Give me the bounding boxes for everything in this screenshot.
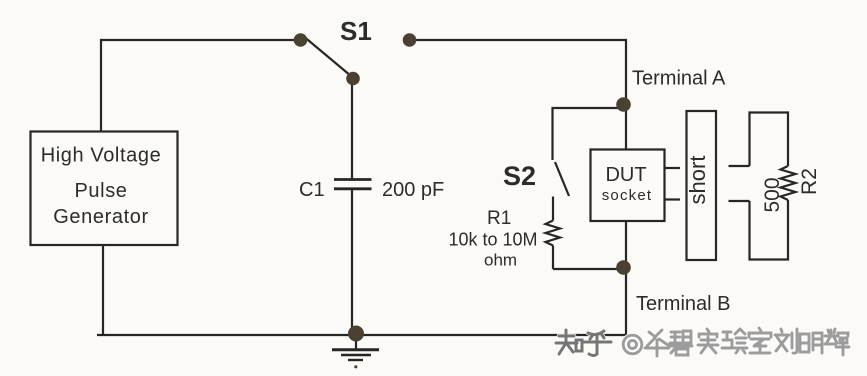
svg-text:C1: C1	[299, 179, 325, 201]
svg-text:S2: S2	[503, 161, 536, 191]
svg-text:ohm: ohm	[484, 251, 517, 270]
svg-text:R2: R2	[798, 168, 821, 195]
svg-text:500: 500	[761, 177, 784, 212]
svg-text:R1: R1	[487, 208, 511, 229]
svg-text:Terminal B: Terminal B	[636, 293, 730, 315]
svg-text:10k to 10M: 10k to 10M	[449, 230, 538, 250]
svg-text:short: short	[685, 156, 710, 205]
svg-text:socket: socket	[602, 187, 653, 204]
svg-text:Generator: Generator	[53, 206, 148, 228]
svg-text:High Voltage: High Voltage	[41, 145, 162, 167]
svg-text:S1: S1	[340, 16, 372, 46]
svg-text:200 pF: 200 pF	[382, 179, 444, 201]
svg-text:Pulse: Pulse	[74, 180, 127, 202]
svg-text:DUT: DUT	[605, 164, 646, 186]
svg-text:Terminal A: Terminal A	[632, 68, 726, 90]
